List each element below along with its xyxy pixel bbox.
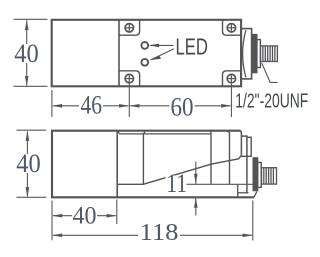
arrow dim46 right [119, 104, 129, 108]
dim 40 bottom ext left [51, 201, 53, 241]
head inner vertical B with top chamfer [227, 131, 230, 185]
arrow dim40top down [25, 76, 29, 86]
side view outer outline [51, 131, 254, 198]
arrow dim40bottom right [107, 214, 117, 218]
svg-text:40: 40 [14, 39, 39, 68]
dim 40 bottom dimension wire [53, 215, 116, 217]
arrow LED lower [150, 56, 161, 61]
dim 40 top ext line upper [14, 18, 48, 20]
thin dimension and leader lines [14, 19, 278, 117]
cable cover slant edge [143, 155, 241, 184]
LED leader upper [150, 44, 174, 46]
dim 40 side ext line lower [17, 196, 47, 198]
head inner vertical at 143 [142, 134, 144, 184]
svg-text:11: 11 [166, 169, 187, 198]
arrow dim11 down [194, 174, 198, 184]
svg-text:118: 118 [140, 219, 179, 246]
head inner vertical A [210, 131, 212, 185]
LED indicator lower [141, 59, 148, 66]
arrow dim40side down [26, 187, 30, 197]
arrowheads group [25, 20, 232, 108]
LED leader lower [151, 49, 174, 60]
svg-text:1/2"-20UNF: 1/2"-20UNF [235, 89, 308, 112]
dim 46 dimension wire [53, 105, 128, 107]
connector flange top view [252, 35, 256, 73]
connector thread top view [261, 46, 278, 62]
top view body outline [52, 20, 241, 87]
screw pad top-left [119, 20, 139, 35]
connector neck side view [258, 162, 262, 187]
dim 118 dimension wire [53, 234, 252, 236]
connector flange side view [253, 158, 257, 191]
arrow dim40top up [25, 20, 29, 30]
cap curvature arc [243, 30, 246, 77]
arrow dim40side up [26, 131, 30, 141]
screw pad bottom-right [223, 71, 242, 87]
screw M1 top-left [125, 24, 133, 32]
svg-text:46: 46 [80, 90, 102, 119]
arrow dim40bottom left [52, 214, 62, 218]
rear lower vertical [237, 184, 239, 197]
svg-text:40: 40 [73, 202, 97, 229]
dim 11 upper wire [195, 162, 197, 185]
svg-text:LED: LED [176, 34, 209, 60]
dim 11 lower wire [195, 197, 197, 215]
rear top step [241, 136, 247, 193]
side view body-head seam wire [116, 131, 118, 198]
dim 60 dimension wire [130, 105, 230, 107]
screw M2 bottom-left [125, 74, 133, 82]
rear lower step line [238, 192, 249, 194]
bottom view arrowheads [26, 131, 253, 237]
LED indicator upper [141, 42, 148, 49]
connector neck top view [257, 40, 261, 68]
sensing face edge line [117, 183, 143, 185]
dim 40 top ext line lower [14, 85, 48, 87]
arrow dim60 left [129, 104, 139, 108]
dim 40 top dimension wire [26, 21, 28, 86]
dim 40 side ext line upper [17, 129, 47, 131]
connector leader [262, 63, 278, 82]
screw M4 bottom-right [227, 74, 235, 82]
dim 46 ext line left [51, 90, 53, 117]
arrow dim46 left [52, 104, 62, 108]
head top inner edge [117, 131, 211, 134]
screw centerline left [128, 82, 130, 117]
dim 118 ext right [252, 201, 254, 241]
bottom text masks [14, 154, 187, 244]
dim 40 side dimension wire [26, 132, 28, 197]
screw M3 top-right [227, 24, 235, 32]
arrow dim11 up [194, 198, 198, 208]
screw pad top-right [223, 20, 242, 35]
arrow dim118 right [243, 234, 253, 238]
ridge start bevel [143, 131, 145, 134]
rear ear block [241, 137, 251, 156]
screw centerline right [230, 82, 232, 117]
arrow dim118 left [52, 234, 62, 238]
arrow LED upper [149, 44, 159, 48]
dim 40 bottom ext right [116, 200, 118, 225]
text masks [13, 44, 195, 117]
svg-text:40: 40 [16, 149, 41, 178]
top view section division wire [118, 20, 120, 87]
bottom edge end chamfer [254, 192, 257, 198]
screw pad bottom-left [119, 71, 139, 87]
bottom view thin lines [17, 130, 253, 240]
dim 11 reference line [185, 183, 253, 185]
arrow dim60 right [221, 104, 231, 108]
svg-text:60: 60 [171, 92, 194, 121]
rear cap top view [241, 29, 252, 79]
connector thread side view [262, 168, 277, 184]
rear head vertical [240, 131, 241, 156]
